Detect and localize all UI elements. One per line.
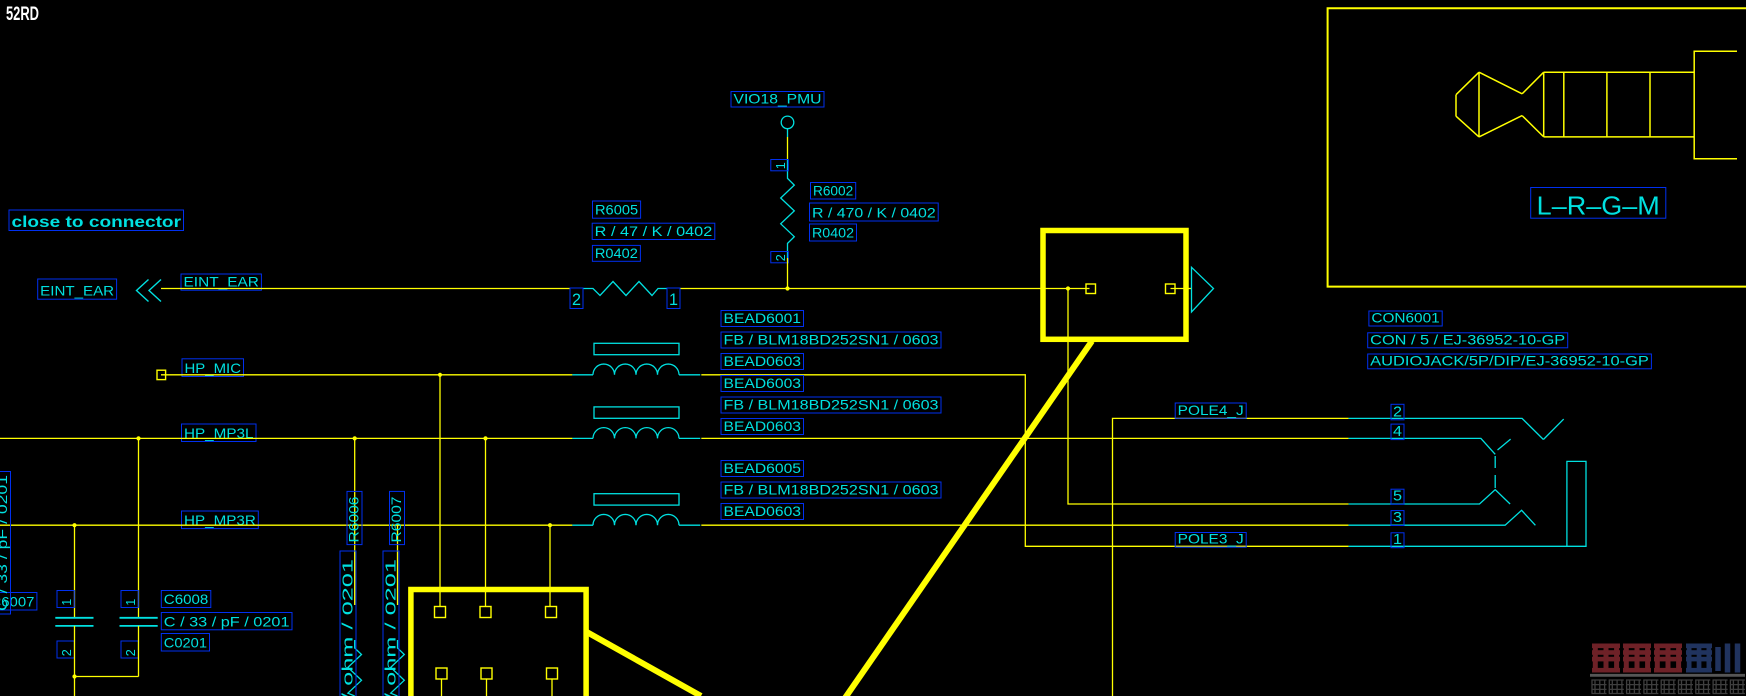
R6002 footprint (810, 224, 857, 241)
connector pad A3 (546, 607, 557, 618)
watermark char 4 (1686, 644, 1712, 673)
resistor R6002 body (781, 160, 795, 258)
wire HP_MP3R (0, 524, 572, 526)
svg-text:CON / 5 / EJ-36952-10-GP: CON / 5 / EJ-36952-10-GP (1370, 331, 1565, 347)
off-page port label EINT_EAR (38, 279, 117, 299)
svg-text:1: 1 (59, 599, 74, 606)
watermark small char 6 (1678, 680, 1693, 694)
wire HP_MIC (161, 374, 572, 376)
svg-text:HP_MIC: HP_MIC (185, 360, 242, 376)
junction gnd bus (72, 674, 76, 678)
wire C6007 to gnd bus (74, 626, 76, 677)
terminal HP_MIC (157, 370, 166, 379)
C6008 footprint (161, 634, 209, 652)
junction HP_MP3L/R6006 (353, 436, 357, 440)
pin number 3 (1391, 509, 1404, 526)
R6006 value (rotated) (340, 551, 357, 696)
svg-text:2: 2 (59, 649, 74, 656)
CON6001 refdes (1369, 310, 1442, 327)
wire EINT_EAR left segment (161, 288, 570, 290)
pin number 1 (1391, 531, 1404, 548)
svg-text:1: 1 (123, 599, 138, 606)
wire pad B1 stub (441, 679, 443, 696)
svg-text:R0402: R0402 (595, 245, 638, 261)
svg-text:BEAD6005: BEAD6005 (724, 460, 802, 476)
pin 2 of R6005 (570, 288, 583, 309)
pin 1 of C6007 (57, 591, 74, 608)
BEAD6001 value (721, 332, 941, 349)
svg-text:CON6001: CON6001 (1371, 310, 1440, 326)
svg-text:1: 1 (773, 162, 788, 169)
wire EINT_EAR branch to pin 5 (1068, 289, 1349, 505)
pin number 4 (1391, 423, 1404, 440)
wire circle stub (cyan) (787, 129, 789, 137)
wire EINT_EAR right segment (680, 288, 1090, 290)
wire HP_MP3R to C6007 (74, 525, 76, 618)
svg-text:C6008: C6008 (164, 591, 209, 607)
pin number 5 (1391, 488, 1404, 505)
net label POLE3_J (1175, 531, 1246, 548)
R6007 value (rotated) (383, 551, 400, 696)
speaker triangle (1192, 267, 1214, 312)
R6006 refdes (rotated) (346, 491, 363, 544)
junction EINT_EAR branch (1066, 286, 1070, 290)
net label HP_MP3R (182, 511, 259, 529)
wire HP_MIC down to pad 1 (439, 375, 441, 607)
resistor R6007 body (partial) (391, 640, 405, 696)
headphone plug barrel (1544, 72, 1695, 137)
capacitor C6008 plates (120, 618, 158, 626)
BEAD6001 refdes (721, 310, 804, 327)
svg-text:R6002: R6002 (813, 183, 853, 199)
note "close to connector" (9, 210, 184, 231)
wire gnd bus (75, 676, 139, 678)
C6008 refdes (161, 591, 211, 608)
svg-text:BEAD6003: BEAD6003 (724, 375, 802, 391)
watermark divider line (1590, 674, 1745, 677)
svg-text:C0201: C0201 (164, 635, 207, 651)
BEAD6003 footprint (721, 418, 804, 435)
svg-text:2: 2 (123, 649, 138, 656)
BEAD6005 refdes (721, 460, 804, 477)
label L-R-G-M (1531, 188, 1666, 221)
watermark char 5 (bars) (1718, 644, 1738, 673)
connector pad B1 (436, 668, 447, 679)
BEAD6003 value (721, 397, 941, 414)
wire POLE4_J net (1113, 418, 1349, 696)
net label HP_MP3L (182, 424, 257, 442)
svg-text:R / 47 / K / 0402: R / 47 / K / 0402 (595, 223, 713, 239)
connector CON6001 pin 5 contact (1349, 490, 1511, 504)
svg-text:EINT_EAR: EINT_EAR (40, 283, 114, 299)
switch linkage (dashed) (1494, 456, 1496, 488)
watermark char 3 (1654, 644, 1682, 673)
pin 1 of R6005 (667, 288, 680, 309)
wire C6008 to gnd bus (138, 626, 140, 677)
wire pad B3 stub (551, 679, 553, 696)
R6002 value (810, 203, 939, 221)
off-page chevron << (137, 280, 162, 302)
svg-text:C / 33 / pF / 0201: C / 33 / pF / 0201 (164, 613, 290, 629)
svg-text:BEAD6001: BEAD6001 (724, 310, 802, 326)
watermark small char 2 (1609, 680, 1624, 694)
svg-text:5: 5 (1393, 488, 1402, 505)
connector CON6001 pin 1 / sleeve (1349, 461, 1586, 546)
svg-text:2: 2 (572, 290, 581, 309)
junction HP_MP3L/C6008 (136, 436, 140, 440)
power terminal circle VIO18_PMU (781, 116, 794, 129)
svg-text:POLE4_J: POLE4_J (1178, 402, 1244, 418)
R6007 refdes (rotated) (388, 491, 405, 544)
svg-text:2: 2 (1393, 403, 1402, 420)
net label POLE4_J (1175, 402, 1246, 419)
svg-text:R6005: R6005 (595, 202, 638, 218)
ferrite bead BEAD6003 body (572, 407, 700, 439)
svg-text:BEAD0603: BEAD0603 (724, 418, 802, 434)
wire HP_MP3L down to pad 2 (485, 438, 487, 606)
callout diagonal line right (845, 341, 1092, 696)
wire pad B2 stub (486, 679, 488, 696)
connector CON6001 pin 3 contact (1349, 510, 1536, 525)
pin 1 of C6008 (121, 591, 138, 608)
svg-text:L–R–G–M: L–R–G–M (1537, 191, 1660, 221)
svg-text:FB / BLM18BD252SN1 / 0603: FB / BLM18BD252SN1 / 0603 (724, 332, 939, 348)
BEAD6001 footprint (721, 353, 804, 370)
svg-text:R0402: R0402 (812, 225, 854, 241)
wire HP_MP3L right of bead (701, 437, 1348, 439)
connector pad B3 (547, 668, 558, 679)
capacitor C6007 plates (55, 618, 93, 626)
connector pad A2 (480, 607, 491, 618)
junction HP_MIC/pad1 (438, 373, 442, 377)
wire R6006 from HP_MP3L (354, 438, 356, 605)
svg-text:2: 2 (773, 254, 788, 261)
net label EINT_EAR (181, 274, 261, 291)
svg-text:EINT_EAR: EINT_EAR (184, 274, 259, 290)
svg-text:POLE3_J: POLE3_J (1178, 531, 1244, 547)
junction HP_MP3R/C6007 (72, 523, 76, 527)
wire R6007 from HP_MP3R (397, 525, 399, 605)
connector pad B2 (481, 668, 492, 679)
watermark small char 4 (1643, 680, 1658, 694)
wire gnd stub down (74, 677, 76, 696)
svg-text:4: 4 (1393, 423, 1402, 440)
connector CON6001 pin 2 contact (1349, 418, 1564, 439)
watermark small char 5 (1661, 680, 1676, 694)
junction R6002/EINT_EAR (785, 286, 789, 290)
svg-text:1: 1 (1393, 531, 1402, 548)
highlight box over receiver symbol (1043, 231, 1186, 340)
resistor R6006 body (partial) (348, 640, 362, 696)
wire HP_MP3R right of bead (701, 524, 1348, 526)
svg-text:52RD: 52RD (6, 4, 39, 25)
watermark small char 3 (1626, 680, 1641, 694)
C6007 value (rotated) (0, 472, 11, 615)
svg-text:1: 1 (669, 290, 678, 309)
svg-text:R6006: R6006 (346, 496, 362, 542)
C6008 value (161, 613, 292, 630)
headphone plug neck (1522, 72, 1544, 137)
svg-text:3: 3 (1393, 509, 1402, 526)
svg-text:FB / BLM18BD252SN1 / 0603: FB / BLM18BD252SN1 / 0603 (724, 397, 939, 413)
watermark small char 7 (1695, 680, 1710, 694)
power net label VIO18_PMU (731, 91, 824, 108)
R6005 refdes (593, 201, 641, 218)
resistor R6005 body (583, 282, 667, 296)
svg-text:AUDIOJACK/5P/DIP/EJ-36952-10-G: AUDIOJACK/5P/DIP/EJ-36952-10-GP (1370, 352, 1649, 368)
wire HP_MP3R down to pad 3 (549, 525, 551, 606)
CON6001 footprint (1368, 352, 1652, 369)
svg-text:R6007: R6007 (388, 496, 404, 542)
R6005 value (592, 223, 715, 240)
R6005 footprint (592, 245, 640, 262)
wire R6002 pin2 to EINT_EAR (787, 258, 789, 289)
ferrite bead BEAD6005 body (572, 494, 700, 526)
pin number 2 (1391, 403, 1404, 420)
ferrite bead BEAD6001 body (572, 343, 700, 375)
watermark small char 1 (1592, 680, 1607, 694)
wire HP_MP3L (0, 437, 572, 439)
svg-text:C / 33 / pF / 0201: C / 33 / pF / 0201 (0, 475, 10, 611)
BEAD6005 footprint (721, 503, 804, 520)
svg-text:BEAD0603: BEAD0603 (724, 503, 802, 519)
wire HP_MIC right of bead (701, 375, 1348, 547)
svg-text:VIO18_PMU: VIO18_PMU (734, 91, 822, 107)
svg-text:R / 470 / K / 0402: R / 470 / K / 0402 (812, 205, 936, 221)
connector pad A1 (435, 607, 446, 618)
pin 2 of C6007 (57, 641, 74, 658)
net label HP_MIC (182, 359, 244, 377)
BEAD6005 value (721, 482, 941, 499)
C6007 refdes (0, 593, 37, 611)
frame box (plug illustration) (1328, 8, 1746, 286)
wire HP_MP3L to C6008 (138, 438, 140, 617)
pin 1 of R6002 (771, 160, 789, 171)
highlight box over connector footprint (411, 590, 586, 696)
callout diagonal line left (585, 631, 701, 696)
pin 2 of R6002 (771, 252, 789, 263)
connector CON6001 pin 4 contact (1349, 438, 1511, 454)
svg-text:/ ohm / 0201: / ohm / 0201 (340, 559, 357, 696)
junction HP_MP3R/pad3 (548, 523, 552, 527)
watermark char 2 (1623, 644, 1651, 673)
svg-text:/ ohm / 0201: / ohm / 0201 (383, 559, 400, 696)
watermark small char 8 (1713, 680, 1728, 694)
svg-text:close to connector: close to connector (12, 214, 182, 231)
svg-text:BEAD0603: BEAD0603 (724, 353, 802, 369)
watermark small char 9 (1730, 680, 1745, 694)
receiver pad 1 (1086, 284, 1096, 294)
pin 2 of C6008 (121, 641, 138, 658)
BEAD6003 refdes (721, 375, 804, 392)
R6002 refdes (811, 183, 856, 200)
watermark char 1 (1592, 644, 1620, 673)
wire VIO18_PMU to R6002 pin1 (787, 137, 789, 160)
headphone plug tip (1456, 72, 1522, 137)
jack body (1694, 51, 1737, 158)
wire receiver to speaker (1171, 288, 1192, 290)
receiver pad 2 (1166, 284, 1176, 294)
CON6001 value (1368, 331, 1568, 348)
svg-text:FB / BLM18BD252SN1 / 0603: FB / BLM18BD252SN1 / 0603 (724, 482, 939, 498)
junction HP_MP3L/pad2 (483, 436, 487, 440)
